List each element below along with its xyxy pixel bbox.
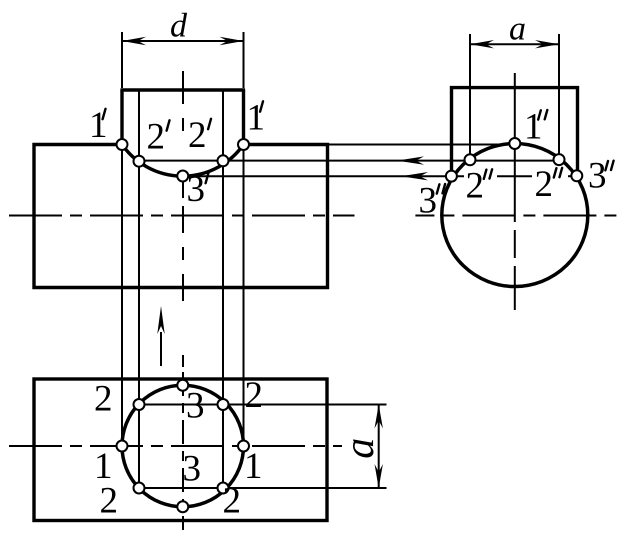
vertical centre line of cylinder (dash-dot) xyxy=(182,71,184,288)
svg-text:2: 2 xyxy=(100,481,119,522)
side view vertical centre line dash 1 xyxy=(514,230,516,258)
double prime ticks of 1'' xyxy=(538,110,547,120)
point 1'' marker xyxy=(509,138,520,149)
svg-text:2: 2 xyxy=(147,117,166,158)
point 2' right marker xyxy=(218,155,229,166)
front view intersection curve arc xyxy=(122,145,244,177)
prime tick of 3' xyxy=(206,173,209,183)
svg-text:d: d xyxy=(170,7,188,44)
transfer line level 3 segment b xyxy=(497,175,532,177)
dimension a arrowhead right xyxy=(535,40,559,48)
vertical centre line in top view xyxy=(182,372,184,530)
transfer line level 3 arrowhead xyxy=(401,172,428,180)
point 1' left marker xyxy=(117,139,128,150)
front view horizontal centre line xyxy=(9,215,355,217)
svg-text:3: 3 xyxy=(183,449,202,490)
svg-text:2: 2 xyxy=(245,375,264,416)
front view vertical cylinder top edge xyxy=(120,88,245,91)
svg-text:3: 3 xyxy=(588,156,607,197)
top view circle (vertical cylinder) xyxy=(122,385,244,507)
top view body outline xyxy=(34,379,327,521)
point 2'' left marker xyxy=(465,154,476,165)
side view vertical cylinder outline xyxy=(452,88,578,177)
side view horizontal centre line xyxy=(415,215,617,217)
svg-text:2: 2 xyxy=(466,166,485,207)
projection direction arrow head xyxy=(157,306,164,334)
point 1' right marker xyxy=(238,139,249,150)
transfer line level 3 (3' to 3'') segment a xyxy=(183,175,464,177)
svg-text:a: a xyxy=(337,438,383,459)
projection direction arrow shaft xyxy=(160,332,162,366)
projection line x1 (cylinder left edge down to top view) xyxy=(121,145,123,447)
projection line x4 (point 2 right) xyxy=(222,90,224,488)
transfer line level 1 (1' to 1'') xyxy=(244,144,515,146)
side view circle (horizontal cylinder end) xyxy=(442,144,588,287)
top view horizontal centre line xyxy=(9,445,342,447)
top view point 2 upper-left marker xyxy=(134,399,145,410)
projection line x5 (cylinder right edge down to top view) xyxy=(243,145,245,447)
dimension a (top view) arrowhead down xyxy=(375,464,383,488)
top view chord through points 2 lower xyxy=(139,487,387,489)
svg-text:1: 1 xyxy=(244,446,263,487)
point 2'' right marker xyxy=(554,154,565,165)
point 3' marker xyxy=(177,171,188,182)
prime tick of 2' right xyxy=(208,119,211,129)
dimension a extension / projection line left xyxy=(469,34,471,160)
svg-text:3: 3 xyxy=(186,386,205,427)
top view point 3 top marker xyxy=(177,380,188,391)
point 3'' right marker xyxy=(571,170,582,181)
dimension d extension line right xyxy=(243,32,245,88)
dimension a arrowhead left xyxy=(470,40,494,48)
point 3'' left marker xyxy=(446,171,457,182)
prime tick of 2' left xyxy=(167,120,170,130)
transfer line level 2 (2' to 2'') xyxy=(139,160,559,162)
svg-text:2: 2 xyxy=(188,115,207,156)
dimension d arrowhead right xyxy=(220,37,244,45)
dimension a (top view) line xyxy=(378,405,380,489)
top view point 2 lower-left marker xyxy=(134,483,145,494)
svg-text:2: 2 xyxy=(535,164,554,205)
top view point 2 lower-right marker xyxy=(218,483,229,494)
double prime ticks of 3'' right xyxy=(605,161,613,171)
svg-text:2: 2 xyxy=(94,379,113,420)
double prime ticks of 2'' left xyxy=(484,169,492,179)
dimension d extension line left xyxy=(121,32,123,88)
point 2' left marker xyxy=(134,156,145,167)
dimension d arrowhead left xyxy=(122,37,146,45)
projection line x2 (point 2 left) xyxy=(138,90,140,488)
double prime ticks of 3'' left xyxy=(437,184,445,194)
transfer line level 3 segment c xyxy=(568,175,577,177)
dimension a (top view) arrowhead up xyxy=(375,405,383,429)
vertical centre line dashes in gap zone xyxy=(182,288,184,367)
front view vertical cylinder left edge xyxy=(120,90,123,145)
top view point 1 left marker xyxy=(117,441,128,452)
dimension d line xyxy=(122,40,244,42)
prime tick of 1' right xyxy=(260,101,263,111)
top view point 1 right marker xyxy=(238,441,249,452)
dimension a line xyxy=(470,43,559,45)
svg-text:3: 3 xyxy=(419,181,438,222)
top view point 3 bottom marker xyxy=(177,501,188,512)
svg-text:a: a xyxy=(509,11,526,48)
dimension a extension / projection line right xyxy=(558,34,560,160)
top view chord through points 2 upper xyxy=(139,404,387,406)
front view body outline xyxy=(34,145,328,288)
svg-text:2: 2 xyxy=(223,481,242,522)
svg-text:3: 3 xyxy=(187,169,206,210)
front view vertical cylinder right edge xyxy=(242,90,245,145)
top view point 2 upper-right marker xyxy=(218,399,229,410)
prime tick of 1' left xyxy=(103,109,106,119)
side view vertical centre line dash 2 xyxy=(514,266,516,310)
double prime ticks of 2'' right xyxy=(554,168,562,178)
side view vertical centre line solid part xyxy=(514,73,516,222)
transfer line level 2 arrowhead xyxy=(397,156,424,164)
